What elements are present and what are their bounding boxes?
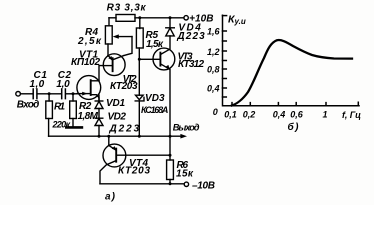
svg-text:f, Гц: f, Гц [342, 110, 361, 120]
svg-text:–10В: –10В [192, 181, 215, 192]
svg-text:VD1: VD1 [106, 98, 125, 109]
svg-text:0,1: 0,1 [224, 109, 237, 119]
svg-text:VD2: VD2 [108, 111, 127, 122]
svg-text:1: 1 [322, 109, 327, 119]
svg-text:0,8: 0,8 [207, 64, 220, 74]
svg-text:Выход: Выход [173, 123, 200, 133]
svg-text:а): а) [105, 192, 116, 203]
svg-text:220к: 220к [52, 120, 71, 130]
svg-text:КС168А: КС168А [141, 105, 168, 115]
svg-text:2,5к: 2,5к [77, 36, 102, 47]
svg-text:0,4: 0,4 [273, 109, 286, 119]
svg-text:КП102: КП102 [71, 57, 100, 68]
svg-text:R1: R1 [54, 102, 65, 113]
svg-text:б): б) [288, 121, 300, 133]
svg-text:1,0: 1,0 [30, 79, 45, 90]
svg-text:КТ203: КТ203 [118, 166, 150, 177]
svg-text:0: 0 [213, 107, 218, 117]
svg-text:Ку.и: Ку.и [228, 14, 246, 27]
svg-text:0,2: 0,2 [243, 109, 256, 119]
svg-text:Д223: Д223 [176, 31, 205, 42]
svg-text:1,8М: 1,8М [78, 111, 99, 122]
svg-text:+10В: +10В [189, 14, 213, 25]
svg-text:1,2: 1,2 [207, 47, 220, 57]
svg-text:0,6: 0,6 [290, 109, 304, 119]
svg-text:15к: 15к [176, 169, 194, 180]
svg-text:КТ203: КТ203 [110, 81, 138, 92]
svg-text:0,4: 0,4 [207, 84, 220, 94]
svg-text:VD3: VD3 [145, 93, 165, 104]
svg-text:1,5к: 1,5к [146, 39, 164, 50]
svg-text:R3 3,3к: R3 3,3к [107, 2, 147, 13]
svg-text:1,0: 1,0 [56, 79, 70, 90]
svg-text:КТ312: КТ312 [178, 59, 204, 70]
svg-text:1,6: 1,6 [207, 26, 221, 36]
svg-text:Вход: Вход [17, 99, 40, 110]
svg-text:Д223: Д223 [109, 124, 140, 135]
